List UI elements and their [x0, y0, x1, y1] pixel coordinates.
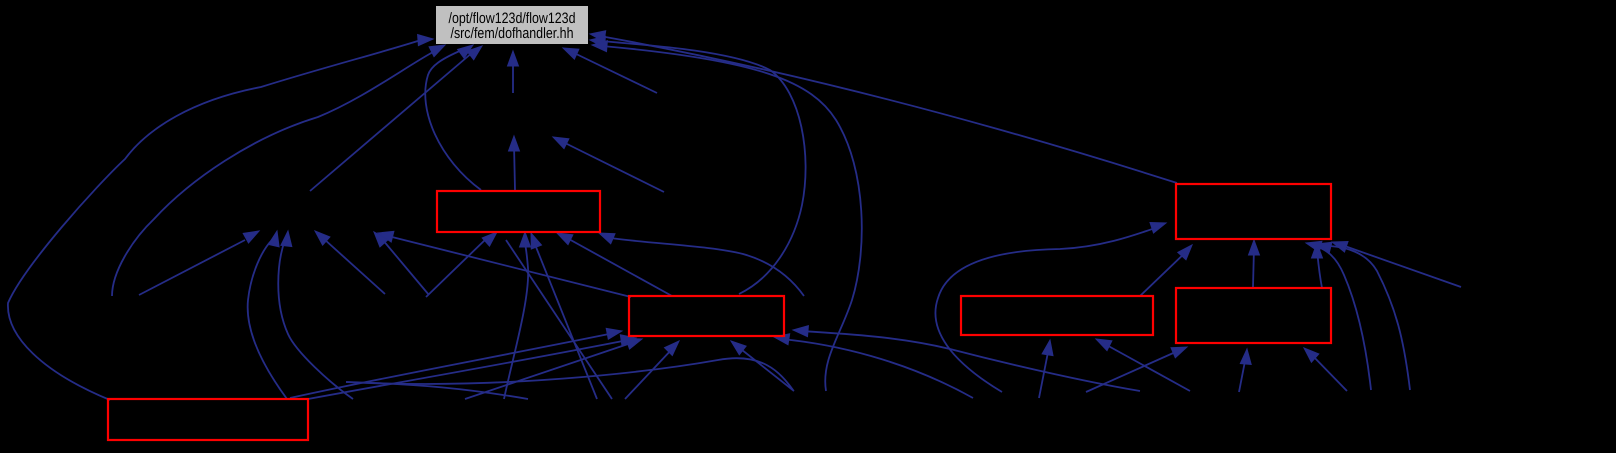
edge node36->F — [1239, 349, 1251, 392]
node B (fe_values) — [629, 296, 784, 336]
edge node20->B — [731, 341, 794, 391]
edge node33->D — [1306, 241, 1371, 390]
edge node23->A — [506, 240, 612, 399]
edge node26->B — [774, 334, 973, 398]
edge node31->node20 — [346, 358, 793, 390]
edge C->dofhandler — [8, 35, 433, 400]
edge node4->dofhandler — [508, 51, 519, 93]
edge D->dofhandler — [590, 31, 1177, 183]
edge node34->D — [1332, 242, 1461, 288]
edge B->dofhandler — [590, 36, 806, 294]
edge node28->E — [1039, 340, 1053, 398]
node E (lower middle right) — [961, 296, 1153, 335]
edge C->node9 — [248, 231, 287, 399]
edge node41->A — [531, 233, 597, 399]
svg-text:/src/fem/dofhandler.hh: /src/fem/dofhandler.hh — [451, 25, 574, 42]
edge node38->A — [504, 232, 531, 399]
node F (lower right) — [1176, 288, 1331, 343]
edge E->D — [1140, 245, 1192, 296]
node D (top right) — [1176, 184, 1331, 239]
edge node14->node9 — [139, 231, 259, 295]
edge node32->D — [1316, 242, 1410, 390]
edge B->A — [557, 233, 672, 296]
edge node5->dofhandler — [563, 48, 657, 93]
edge node21->D — [935, 223, 1166, 393]
edge node17->node9 — [315, 231, 385, 294]
edge node37->F — [1304, 348, 1347, 391]
edge node35->F — [1086, 347, 1187, 392]
edge node39->B — [465, 339, 642, 400]
edge node18->node9 — [374, 232, 429, 295]
edge B->node9 — [378, 231, 631, 297]
edge node22->B — [793, 326, 1140, 391]
edge node25->B — [625, 341, 679, 399]
edge F->D 2 — [1312, 243, 1323, 288]
edge node20->dofhandler — [592, 41, 862, 391]
edge node24->B — [290, 328, 622, 398]
edge node27->E — [1096, 339, 1190, 391]
edge node9->dofhandler — [310, 46, 482, 191]
edge node30->node9 — [346, 382, 528, 399]
edge node17->A — [426, 232, 497, 297]
edge F->D — [1249, 240, 1260, 287]
edge node40->A — [599, 233, 804, 296]
edge node14->dofhandler — [112, 45, 445, 296]
edge A->node4 — [509, 136, 520, 190]
edge C->B — [308, 335, 636, 399]
node C (bottom left) — [108, 399, 308, 440]
node dofhandler.hh (main) — [436, 6, 588, 44]
edge node16->node9 — [278, 231, 353, 399]
node A (fe_value_handler) — [437, 191, 600, 232]
edge A->dofhandler — [425, 45, 481, 190]
edge node10->node4 — [553, 137, 664, 192]
